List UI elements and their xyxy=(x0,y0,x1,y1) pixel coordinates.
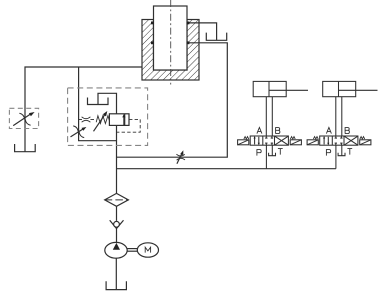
pilot line (dashed) of relief valve xyxy=(117,119,141,132)
wire: manifold left pipe down and along inner bottom xyxy=(79,67,117,141)
pilot orifice in manifold xyxy=(79,119,82,121)
directional valve DV1 body xyxy=(250,136,288,145)
node: main riser (pump pressure line vertical) xyxy=(116,125,118,193)
relief valve adjustment arrow xyxy=(94,115,105,131)
check valve V1 xyxy=(110,220,124,228)
wire: filter to check valve xyxy=(116,206,118,221)
port label A (DV2) xyxy=(326,127,331,133)
ground: DV1 tank xyxy=(269,153,276,156)
actuator cylinder C3 xyxy=(323,81,356,96)
DV1 right solenoid xyxy=(290,140,301,145)
shaft between pump and motor xyxy=(127,248,137,250)
port label T (DV2) xyxy=(347,149,352,155)
port label T (DV1) xyxy=(278,149,283,155)
wire: check valve to pump xyxy=(116,228,118,243)
DV2 right square crossed arrows xyxy=(345,136,358,144)
DV2 left square parallel arrows xyxy=(323,137,325,145)
port label P (DV1) xyxy=(257,150,261,156)
ground: tank under flow control valve xyxy=(15,144,36,152)
press cylinder C1: hatched walls xyxy=(142,20,199,81)
wire: B port riser 2 xyxy=(341,97,343,136)
ground: DV2 tank xyxy=(338,153,345,156)
DV1 left square parallel arrows xyxy=(254,137,256,145)
throttle symbol of flow control valve xyxy=(19,113,24,119)
port label A (DV1) xyxy=(257,127,262,133)
wire: A port riser xyxy=(265,97,267,136)
DV2 right solenoid xyxy=(360,140,371,145)
wire: DV1 T drain xyxy=(271,145,273,155)
wire: B port riser xyxy=(271,97,273,136)
wire: throttled line from riser to cylinder top side port xyxy=(117,43,228,157)
relief valve flow arrow xyxy=(123,117,125,125)
flow control valve F1 dashed box xyxy=(9,108,38,128)
DV2 right return spring xyxy=(360,137,365,139)
relief valve spring xyxy=(96,116,109,124)
wire: DV2 T drain xyxy=(341,145,343,155)
throttle T2 on cylinder line xyxy=(176,154,184,156)
port label B (DV2) xyxy=(345,128,349,134)
ground: tank at cylinder top right xyxy=(206,33,226,41)
wire: feed line from left branch to press cylinder xyxy=(25,67,142,152)
pump P1 xyxy=(105,242,127,258)
press cylinder plunger xyxy=(154,6,188,70)
port label P (DV2) xyxy=(326,150,330,156)
filter FL1 xyxy=(105,193,129,206)
motor M1 xyxy=(137,243,158,257)
wire: DV1 P riser to pressure line xyxy=(265,145,267,169)
DV1 left solenoid xyxy=(238,140,249,145)
DV1 left return spring xyxy=(244,137,249,139)
DV1 centre square blocked ports xyxy=(265,136,267,138)
port label B (DV1) xyxy=(276,128,280,134)
wire: A port riser 2 xyxy=(335,97,337,136)
DV2 left return spring xyxy=(313,137,318,139)
DV2 centre square blocked ports xyxy=(335,136,337,138)
wire: cylinder upper drain to tank xyxy=(187,23,217,40)
wire: pump suction xyxy=(115,258,117,289)
throttle T1 on manifold left pipe xyxy=(73,126,78,132)
press cylinder outer body xyxy=(142,20,199,81)
press cylinder bore xyxy=(154,20,188,71)
wire: relief drain to internal tank xyxy=(98,93,117,114)
wire: DV2 P riser to pressure line xyxy=(335,145,337,169)
DV2 left solenoid xyxy=(307,140,318,145)
wire: pressure P line to valves xyxy=(117,168,336,170)
ground: main reservoir tank xyxy=(106,281,126,289)
ground: internal tank symbol in manifold xyxy=(88,98,109,105)
DV1 right square crossed arrows xyxy=(275,136,288,144)
actuator cylinder C2 xyxy=(253,81,286,96)
seal packing marks xyxy=(151,22,154,25)
valve block dashed enclosure xyxy=(68,88,148,145)
centerline of press cylinder xyxy=(170,0,172,85)
relief valve U1 body xyxy=(109,114,129,126)
DV1 right return spring xyxy=(290,137,295,139)
directional valve DV2 body xyxy=(320,136,358,145)
